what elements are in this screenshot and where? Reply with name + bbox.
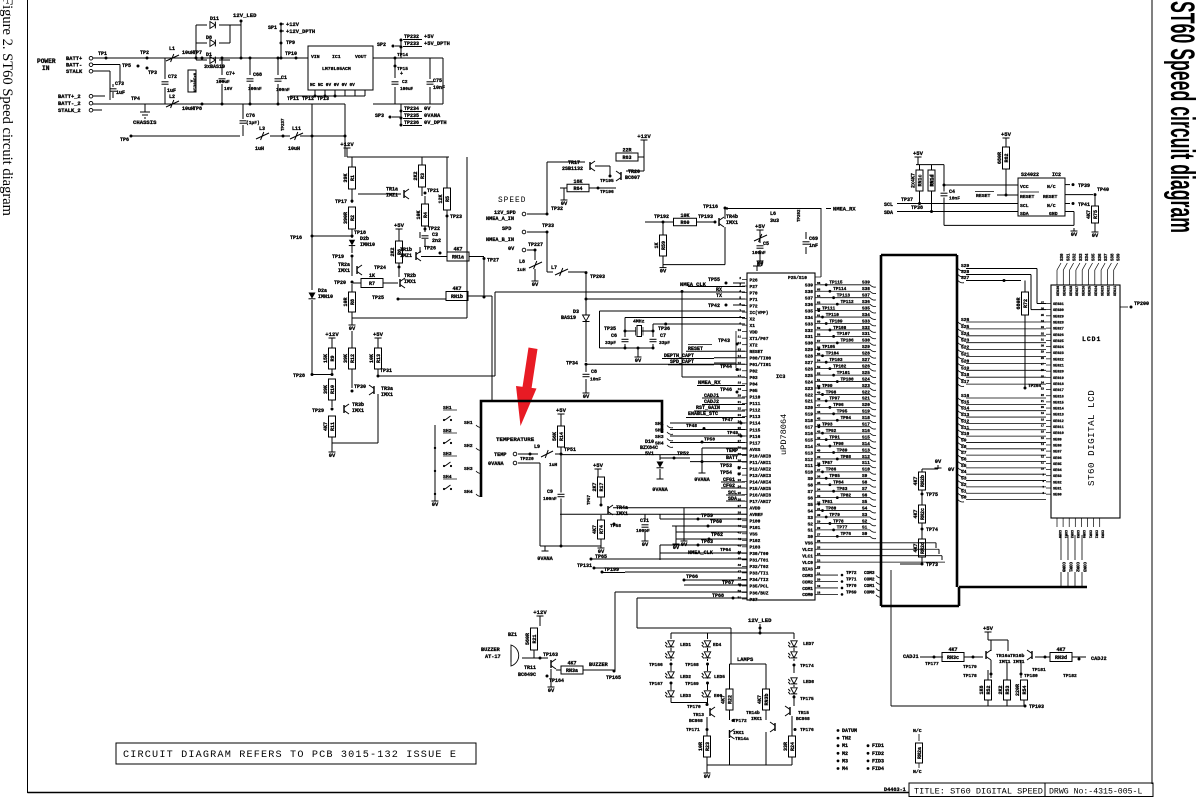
svg-text:TP30: TP30 <box>354 384 366 390</box>
svg-text:TP179: TP179 <box>963 664 977 670</box>
svg-text:TP90: TP90 <box>833 442 844 447</box>
svg-text:X1: X1 <box>750 323 756 329</box>
svg-text:15: 15 <box>738 362 742 365</box>
svg-text:S39: S39 <box>1118 253 1122 261</box>
svg-text:C8: C8 <box>591 369 597 375</box>
svg-text:4K7: 4K7 <box>567 661 576 667</box>
svg-text:16K: 16K <box>573 179 582 185</box>
svg-text:4K7: 4K7 <box>757 695 763 704</box>
svg-text:IMZ1: IMZ1 <box>400 253 412 259</box>
svg-text:P114: P114 <box>750 421 761 427</box>
svg-text:P36/BUZ: P36/BUZ <box>750 590 769 596</box>
svg-text:C76: C76 <box>246 113 255 119</box>
svg-text:TP166: TP166 <box>649 662 663 668</box>
svg-text:BIAS: BIAS <box>802 566 813 572</box>
svg-text:22: 22 <box>1041 394 1045 397</box>
svg-text:CHASSIS: CHASSIS <box>133 119 157 126</box>
svg-text:33: 33 <box>1041 326 1045 329</box>
svg-text:RN3b: RN3b <box>764 693 770 705</box>
svg-text:L11: L11 <box>292 126 301 132</box>
svg-text:TP26: TP26 <box>424 246 436 252</box>
svg-text:2SB1132: 2SB1132 <box>562 166 583 172</box>
svg-text:R62: R62 <box>1004 153 1010 162</box>
svg-text:TP71: TP71 <box>846 578 857 583</box>
svg-text:100nF: 100nF <box>543 496 557 502</box>
svg-text:NC NC 0V 0V 0V 0V: NC NC 0V 0V 0V 0V <box>310 83 355 88</box>
svg-text:SH1: SH1 <box>655 421 664 427</box>
svg-text:100nF: 100nF <box>752 250 766 256</box>
svg-text:S0: S0 <box>862 532 868 537</box>
svg-text:S21: S21 <box>862 397 870 402</box>
svg-text:RESET: RESET <box>976 193 991 199</box>
svg-text:3u3: 3u3 <box>770 218 779 224</box>
svg-text:TP165: TP165 <box>606 675 621 681</box>
svg-text:S9: S9 <box>961 437 967 443</box>
svg-text:TP104: TP104 <box>826 352 840 357</box>
svg-text:P115: P115 <box>750 427 761 433</box>
svg-text:0V: 0V <box>635 358 642 364</box>
svg-text:TP111: TP111 <box>822 306 836 311</box>
svg-text:TP4: TP4 <box>131 96 140 102</box>
svg-text:COM2: COM2 <box>1075 562 1079 573</box>
svg-text:16V: 16V <box>224 86 233 92</box>
svg-text:TP74: TP74 <box>926 527 938 533</box>
svg-text:AVREF: AVREF <box>750 512 764 518</box>
svg-text:S20: S20 <box>862 403 870 408</box>
svg-text:TP107: TP107 <box>837 332 851 337</box>
svg-text:P15/ANI5: P15/ANI5 <box>750 486 772 492</box>
svg-text:BC849C: BC849C <box>518 672 536 678</box>
svg-text:TP168: TP168 <box>685 662 699 668</box>
svg-text:SEG23: SEG23 <box>1053 352 1064 356</box>
svg-text:TP192: TP192 <box>654 214 669 220</box>
svg-text:29: 29 <box>738 453 742 456</box>
svg-text:18: 18 <box>738 381 742 384</box>
svg-text:TP63: TP63 <box>701 539 713 545</box>
svg-text:L8: L8 <box>519 259 525 265</box>
svg-text:NMEA_CLK: NMEA_CLK <box>680 282 707 288</box>
svg-text:14: 14 <box>738 355 742 358</box>
svg-text:IN: IN <box>42 65 50 72</box>
svg-text:TP167: TP167 <box>649 681 663 687</box>
svg-text:+5V: +5V <box>593 462 604 469</box>
svg-text:TP78: TP78 <box>833 519 844 524</box>
svg-text:39: 39 <box>738 518 742 521</box>
svg-text:TP5: TP5 <box>122 63 131 69</box>
svg-text:TP106: TP106 <box>841 339 855 344</box>
svg-text:+5V: +5V <box>755 223 766 230</box>
svg-text:FID1: FID1 <box>872 743 884 749</box>
svg-text:1K: 1K <box>369 273 375 279</box>
svg-text:14: 14 <box>1041 443 1045 446</box>
svg-text:+12V: +12V <box>637 133 651 140</box>
svg-text:COM0: COM0 <box>864 590 875 595</box>
svg-text:SEG26: SEG26 <box>1053 334 1064 338</box>
svg-text:SEG21: SEG21 <box>1053 365 1064 369</box>
svg-text:32: 32 <box>1041 332 1045 335</box>
svg-text:+12V: +12V <box>325 331 339 338</box>
svg-text:TP62: TP62 <box>711 532 723 538</box>
svg-text:TP180: TP180 <box>1024 673 1038 679</box>
svg-text:TP1: TP1 <box>98 51 107 57</box>
svg-text:S30: S30 <box>805 341 813 347</box>
svg-text:+5V: +5V <box>913 150 924 157</box>
svg-text:SEG28: SEG28 <box>1053 321 1064 325</box>
svg-text:TP21: TP21 <box>427 188 439 194</box>
svg-text:4K7: 4K7 <box>592 525 598 534</box>
svg-text:TP113: TP113 <box>837 294 851 299</box>
svg-text:BZ1: BZ1 <box>508 632 517 638</box>
svg-text:4K7: 4K7 <box>913 543 919 552</box>
svg-text:SEG23: SEG23 <box>1101 286 1105 296</box>
svg-text:BC868: BC868 <box>796 716 810 722</box>
svg-text:+12V: +12V <box>533 609 547 616</box>
svg-text:IMX1: IMX1 <box>404 279 416 285</box>
svg-text:SEG7: SEG7 <box>1053 451 1062 455</box>
svg-text:42: 42 <box>738 538 742 541</box>
svg-text:TP101: TP101 <box>837 371 851 376</box>
svg-text:D4463-1: D4463-1 <box>884 787 906 793</box>
svg-text:VLC0: VLC0 <box>802 560 813 566</box>
svg-text:R63: R63 <box>622 155 631 161</box>
svg-text:34: 34 <box>1041 320 1045 323</box>
svg-text:LM78L05ACM: LM78L05ACM <box>322 66 351 72</box>
svg-text:R2: R2 <box>350 215 356 221</box>
svg-text:TEMP: TEMP <box>726 448 738 454</box>
svg-text:23: 23 <box>1041 388 1045 391</box>
svg-text:BC868: BC868 <box>689 718 703 724</box>
svg-text:P112: P112 <box>750 408 761 414</box>
svg-text:4K7: 4K7 <box>913 509 919 518</box>
svg-text:S23: S23 <box>805 386 813 392</box>
svg-text:TP178: TP178 <box>963 673 977 679</box>
svg-text:S28: S28 <box>862 352 870 357</box>
svg-text:S17: S17 <box>805 425 813 431</box>
svg-text:R21: R21 <box>532 634 538 643</box>
svg-text:S20: S20 <box>805 405 813 411</box>
svg-text:SEG14: SEG14 <box>1053 408 1065 412</box>
svg-text:RN2a: RN2a <box>917 747 923 759</box>
svg-text:10: 10 <box>738 329 742 332</box>
svg-text:TP91: TP91 <box>829 435 840 440</box>
svg-text:S7: S7 <box>862 487 868 492</box>
svg-text:RN1a: RN1a <box>452 254 464 260</box>
svg-text:S22: S22 <box>805 392 813 398</box>
svg-text:SEG18: SEG18 <box>1053 383 1064 387</box>
svg-text:TP182: TP182 <box>1063 673 1077 679</box>
svg-text:RN1b: RN1b <box>451 294 463 300</box>
svg-text:S1: S1 <box>961 488 967 494</box>
svg-text:BUZZER: BUZZER <box>589 662 609 668</box>
svg-text:1K: 1K <box>654 242 660 248</box>
svg-text:VLC1: VLC1 <box>802 554 813 560</box>
svg-text:TP44: TP44 <box>720 364 732 370</box>
svg-text:TP75: TP75 <box>926 492 938 498</box>
svg-text:S3: S3 <box>808 515 814 521</box>
svg-text:P103: P103 <box>750 545 761 551</box>
svg-text:TP96: TP96 <box>833 403 844 408</box>
svg-text:TP35: TP35 <box>604 326 616 332</box>
svg-text:COM1: COM1 <box>1063 530 1067 538</box>
svg-text:4K7: 4K7 <box>913 476 919 485</box>
svg-text:38: 38 <box>738 512 742 515</box>
svg-text:56K: 56K <box>552 432 558 441</box>
svg-text:R4: R4 <box>423 212 429 218</box>
svg-text:45: 45 <box>738 557 742 560</box>
svg-text:0VANA: 0VANA <box>424 113 441 119</box>
svg-text:(1pF): (1pF) <box>246 120 260 126</box>
svg-text:TP97: TP97 <box>829 397 840 402</box>
svg-text:S25: S25 <box>862 371 870 376</box>
svg-text:TP27: TP27 <box>487 258 499 264</box>
svg-text:TP196: TP196 <box>600 189 614 195</box>
svg-text:S28: S28 <box>805 354 813 360</box>
svg-text:25: 25 <box>738 427 742 430</box>
svg-text:P35/PCL: P35/PCL <box>750 584 769 590</box>
svg-text:R24: R24 <box>790 742 796 751</box>
svg-text:RN1d: RN1d <box>930 174 936 186</box>
svg-text:TP66: TP66 <box>686 574 698 580</box>
svg-text:SEG30: SEG30 <box>1053 309 1064 313</box>
svg-text:IMX1: IMX1 <box>726 220 738 226</box>
svg-text:IMT1: IMT1 <box>999 659 1011 665</box>
svg-text:TP58: TP58 <box>610 523 621 529</box>
svg-text:SCL: SCL <box>884 202 893 208</box>
svg-text:P30/T00: P30/T00 <box>750 551 769 557</box>
svg-text:IMX1: IMX1 <box>733 730 744 736</box>
svg-text:S39: S39 <box>805 283 813 289</box>
svg-text:AVDD: AVDD <box>750 506 761 512</box>
svg-text:P116: P116 <box>750 434 761 440</box>
svg-text:P02: P02 <box>750 369 758 375</box>
svg-text:SH2: SH2 <box>655 428 664 434</box>
svg-text:R22: R22 <box>727 695 733 704</box>
svg-text:S33: S33 <box>805 321 813 327</box>
svg-text:TP169: TP169 <box>685 681 699 687</box>
svg-text:TP193: TP193 <box>698 214 713 220</box>
svg-text:TP24: TP24 <box>374 265 386 271</box>
svg-text:L3: L3 <box>259 126 265 132</box>
svg-text:P01/TI01: P01/TI01 <box>750 362 772 368</box>
svg-text:12K: 12K <box>438 194 444 203</box>
svg-text:S32: S32 <box>862 326 870 331</box>
svg-text:R74: R74 <box>599 525 605 534</box>
svg-text:S38: S38 <box>805 289 813 295</box>
svg-text:S22: S22 <box>862 390 870 395</box>
svg-text:S11: S11 <box>805 463 813 469</box>
svg-text:COM2: COM2 <box>802 579 813 585</box>
svg-text:R53: R53 <box>1005 685 1011 694</box>
svg-text:1uH: 1uH <box>255 146 264 152</box>
svg-text:S38: S38 <box>1111 253 1115 261</box>
svg-text:TP116: TP116 <box>703 204 718 210</box>
svg-text:R75: R75 <box>1093 210 1099 219</box>
svg-text:C6: C6 <box>611 333 617 339</box>
svg-text:TP70: TP70 <box>846 584 857 589</box>
svg-text:BATT-_2: BATT-_2 <box>58 101 81 107</box>
svg-text:TP103: TP103 <box>829 358 843 363</box>
svg-text:R7: R7 <box>369 281 375 287</box>
svg-text:P12/ANI2: P12/ANI2 <box>750 466 772 472</box>
svg-text:RN2d: RN2d <box>920 542 926 554</box>
svg-text:M3: M3 <box>842 758 848 764</box>
svg-text:COM2: COM2 <box>1093 530 1097 538</box>
svg-text:COM0: COM0 <box>802 592 813 598</box>
svg-text:P27: P27 <box>750 284 758 290</box>
svg-text:D11: D11 <box>210 16 219 22</box>
svg-text:TP20: TP20 <box>334 280 346 286</box>
svg-text:SEG25: SEG25 <box>1089 286 1093 296</box>
svg-text:18: 18 <box>1041 418 1045 421</box>
svg-text:0V: 0V <box>508 246 515 252</box>
svg-text:100nF: 100nF <box>276 87 290 93</box>
svg-text:L6: L6 <box>770 211 776 217</box>
svg-text:LCD1: LCD1 <box>1082 336 1101 343</box>
svg-text:S24: S24 <box>862 377 870 382</box>
svg-text:TH2: TH2 <box>842 736 851 742</box>
svg-text:560R: 560R <box>525 633 531 645</box>
svg-text:SEG12: SEG12 <box>1053 420 1064 424</box>
svg-text:COM2: COM2 <box>864 578 875 583</box>
svg-text:S26: S26 <box>862 364 870 369</box>
svg-text:TR14a: TR14a <box>735 736 749 742</box>
svg-text:29: 29 <box>1041 351 1045 354</box>
svg-text:SEG8: SEG8 <box>1053 444 1062 448</box>
svg-text:S15: S15 <box>805 437 813 443</box>
svg-text:VC3605x0: VC3605x0 <box>194 72 198 92</box>
svg-text:TP47: TP47 <box>722 417 733 423</box>
svg-text:SEG28: SEG28 <box>1070 286 1074 296</box>
svg-text:S36: S36 <box>1099 253 1103 261</box>
svg-text:TP51: TP51 <box>564 447 576 453</box>
svg-text:S35: S35 <box>805 308 813 314</box>
svg-text:TP82: TP82 <box>841 493 852 498</box>
svg-text:SH3: SH3 <box>464 466 473 472</box>
svg-text:1uH: 1uH <box>549 462 558 468</box>
svg-text:S13: S13 <box>805 450 813 456</box>
svg-text:IMN10: IMN10 <box>318 294 333 300</box>
svg-text:TP25: TP25 <box>372 295 384 301</box>
svg-text:SEG21: SEG21 <box>1114 286 1118 296</box>
svg-text:0V: 0V <box>532 282 539 288</box>
svg-text:TP60: TP60 <box>710 519 722 525</box>
svg-text:S7: S7 <box>961 450 967 456</box>
svg-text:S32: S32 <box>1074 253 1078 261</box>
svg-text:TP50: TP50 <box>704 437 715 443</box>
svg-text:44: 44 <box>738 551 742 554</box>
svg-text:R11: R11 <box>330 422 336 431</box>
svg-text:4MHz: 4MHz <box>633 319 645 325</box>
svg-text:27: 27 <box>1041 363 1045 366</box>
svg-text:+5V: +5V <box>373 331 384 338</box>
svg-text:BATT-: BATT- <box>66 63 82 69</box>
svg-text:10K: 10K <box>416 210 422 219</box>
svg-text:SEG24: SEG24 <box>1095 286 1099 296</box>
svg-text:SEG22: SEG22 <box>1053 358 1064 362</box>
svg-text:COM3: COM3 <box>1082 562 1086 573</box>
svg-text:49: 49 <box>738 583 742 586</box>
svg-text:0V: 0V <box>1071 232 1078 238</box>
svg-text:TP92: TP92 <box>826 429 837 434</box>
svg-text:28: 28 <box>1041 357 1045 360</box>
svg-text:0V: 0V <box>583 394 590 400</box>
svg-text:TP8: TP8 <box>193 106 202 112</box>
svg-text:P34/TI2: P34/TI2 <box>750 577 769 583</box>
svg-text:33pF: 33pF <box>605 340 616 346</box>
svg-text:S24022: S24022 <box>1021 172 1039 178</box>
svg-text:R59: R59 <box>661 241 667 250</box>
svg-text:+: + <box>400 71 403 77</box>
svg-text:XT1/P07: XT1/P07 <box>750 336 769 342</box>
svg-text:R17: R17 <box>599 482 605 491</box>
svg-text:LAMPS: LAMPS <box>737 657 754 663</box>
svg-text:TP85: TP85 <box>829 474 840 479</box>
svg-text:NMEA_RX: NMEA_RX <box>833 207 856 213</box>
svg-text:AVSS: AVSS <box>750 447 761 453</box>
svg-text:R54: R54 <box>1022 685 1028 694</box>
svg-text:21: 21 <box>738 401 742 404</box>
svg-text:TR16a: TR16a <box>996 653 1011 659</box>
svg-text:LED3: LED3 <box>680 693 691 699</box>
svg-text:5V1: 5V1 <box>645 451 654 457</box>
svg-text:+12V: +12V <box>340 141 354 148</box>
svg-text:TR11: TR11 <box>524 665 536 671</box>
svg-text:TP19: TP19 <box>332 254 344 260</box>
svg-text:TR13: TR13 <box>693 712 704 718</box>
svg-text:TP54: TP54 <box>720 470 732 476</box>
svg-text:36: 36 <box>1041 308 1045 311</box>
svg-text:48: 48 <box>738 577 742 580</box>
svg-text:NMEA_B_IN: NMEA_B_IN <box>486 237 514 243</box>
svg-text:P00/TI00: P00/TI00 <box>750 356 772 362</box>
svg-text:S12: S12 <box>805 457 813 463</box>
svg-text:S29: S29 <box>805 347 813 353</box>
svg-text:RN3a: RN3a <box>566 668 578 674</box>
svg-text:IMT1: IMT1 <box>1013 659 1025 665</box>
svg-text:LED8: LED8 <box>803 679 814 685</box>
svg-text:S31: S31 <box>805 334 813 340</box>
svg-text:BATT+_2: BATT+_2 <box>58 94 81 100</box>
svg-text:COM3: COM3 <box>802 573 813 579</box>
svg-text:TP83: TP83 <box>837 487 848 492</box>
svg-text:S8: S8 <box>961 444 967 450</box>
svg-text:P13/ANI3: P13/ANI3 <box>750 473 772 479</box>
svg-text:S34: S34 <box>862 313 870 318</box>
svg-text:TP114: TP114 <box>833 287 847 292</box>
svg-text:SEG17: SEG17 <box>1053 389 1064 393</box>
svg-text:TP14: TP14 <box>397 52 408 58</box>
svg-text:C4: C4 <box>949 189 955 195</box>
svg-text:TR14b: TR14b <box>746 710 760 716</box>
svg-text:10nF: 10nF <box>590 377 601 383</box>
svg-text:0V: 0V <box>432 502 439 508</box>
svg-text:S4: S4 <box>862 506 868 511</box>
svg-text:P102: P102 <box>750 538 761 544</box>
svg-text:S6: S6 <box>862 493 868 498</box>
svg-text:L7: L7 <box>551 265 557 271</box>
svg-text:SEG6: SEG6 <box>1053 457 1062 461</box>
svg-text:TP181: TP181 <box>1032 667 1046 673</box>
svg-text:TP204: TP204 <box>1028 384 1042 389</box>
svg-text:43: 43 <box>738 544 742 547</box>
svg-text:22: 22 <box>817 566 821 569</box>
svg-text:1uF: 1uF <box>116 90 125 96</box>
svg-text:SEG27: SEG27 <box>1076 286 1080 296</box>
svg-text:26: 26 <box>738 433 742 436</box>
svg-text:50: 50 <box>738 590 742 593</box>
svg-text:0VANA: 0VANA <box>488 461 504 467</box>
svg-text:TP174: TP174 <box>800 663 814 669</box>
